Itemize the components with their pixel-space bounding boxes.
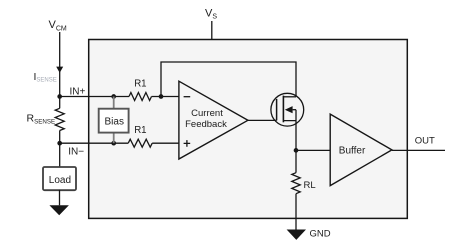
junction output node [294, 148, 299, 153]
wire R1 to non-inverting input [152, 142, 179, 144]
Q1 channel bar [282, 96, 284, 123]
wire op-amp output to gate [248, 119, 277, 121]
wire IN+ [60, 96, 129, 98]
resistor R1 (top) [129, 93, 152, 101]
bias block [99, 109, 129, 133]
resistor RL [292, 173, 300, 194]
junction IN+ / sense line [57, 94, 62, 99]
wire load to ground [59, 190, 61, 206]
wire OUT [392, 149, 445, 151]
svg-text:Feedback: Feedback [185, 119, 227, 130]
ISENSE current arrow [56, 67, 63, 73]
junction IN- / bias [111, 141, 116, 146]
svg-text:Buffer: Buffer [339, 145, 366, 156]
ground (load) [49, 205, 69, 215]
wire VCM sense line [59, 32, 61, 108]
svg-text:R1: R1 [134, 125, 146, 136]
svg-text:IN+: IN+ [70, 86, 86, 97]
svg-text:GND: GND [310, 228, 331, 239]
wire node to buffer [296, 149, 330, 151]
buffer amplifier U2 [330, 114, 392, 186]
junction IN+ / bias [111, 94, 116, 99]
ground GND [287, 230, 306, 240]
junction feedback node [159, 94, 164, 99]
svg-text:Load: Load [49, 175, 71, 186]
device box U1 [89, 40, 408, 219]
wire RL to ground [295, 194, 297, 230]
wire node to RL [295, 150, 297, 172]
resistor RSENSE [55, 108, 64, 130]
wire sense line lower [59, 131, 61, 167]
Q1 source lead [283, 110, 296, 121]
Q1 drain lead [283, 96, 296, 98]
svg-text:R1: R1 [134, 79, 146, 90]
Q1 body arrow [285, 106, 293, 113]
junction IN- / sense line [57, 141, 62, 146]
wire feedback rail [161, 62, 296, 97]
Q1 body circle [271, 93, 304, 126]
op-amp minus sign [184, 96, 191, 98]
bias lead top [113, 97, 115, 109]
wire R1 to inverting input [152, 96, 179, 98]
svg-text:RL: RL [304, 180, 316, 191]
svg-text:Current: Current [191, 108, 223, 119]
transistor Q1 [271, 93, 304, 126]
wire VS supply [211, 21, 213, 40]
wire source to output node [295, 121, 297, 151]
svg-text:IN−: IN− [68, 146, 84, 157]
svg-text:OUT: OUT [415, 135, 435, 146]
Q1 gate bar [276, 99, 278, 121]
wire IN- [60, 142, 129, 144]
op-amp U1 current feedback [179, 81, 248, 159]
load block [43, 167, 76, 190]
op-amp plus sign [184, 140, 191, 147]
bias lead bottom [113, 133, 115, 144]
resistor R1 (bottom) [128, 139, 152, 147]
svg-text:Bias: Bias [105, 116, 124, 127]
